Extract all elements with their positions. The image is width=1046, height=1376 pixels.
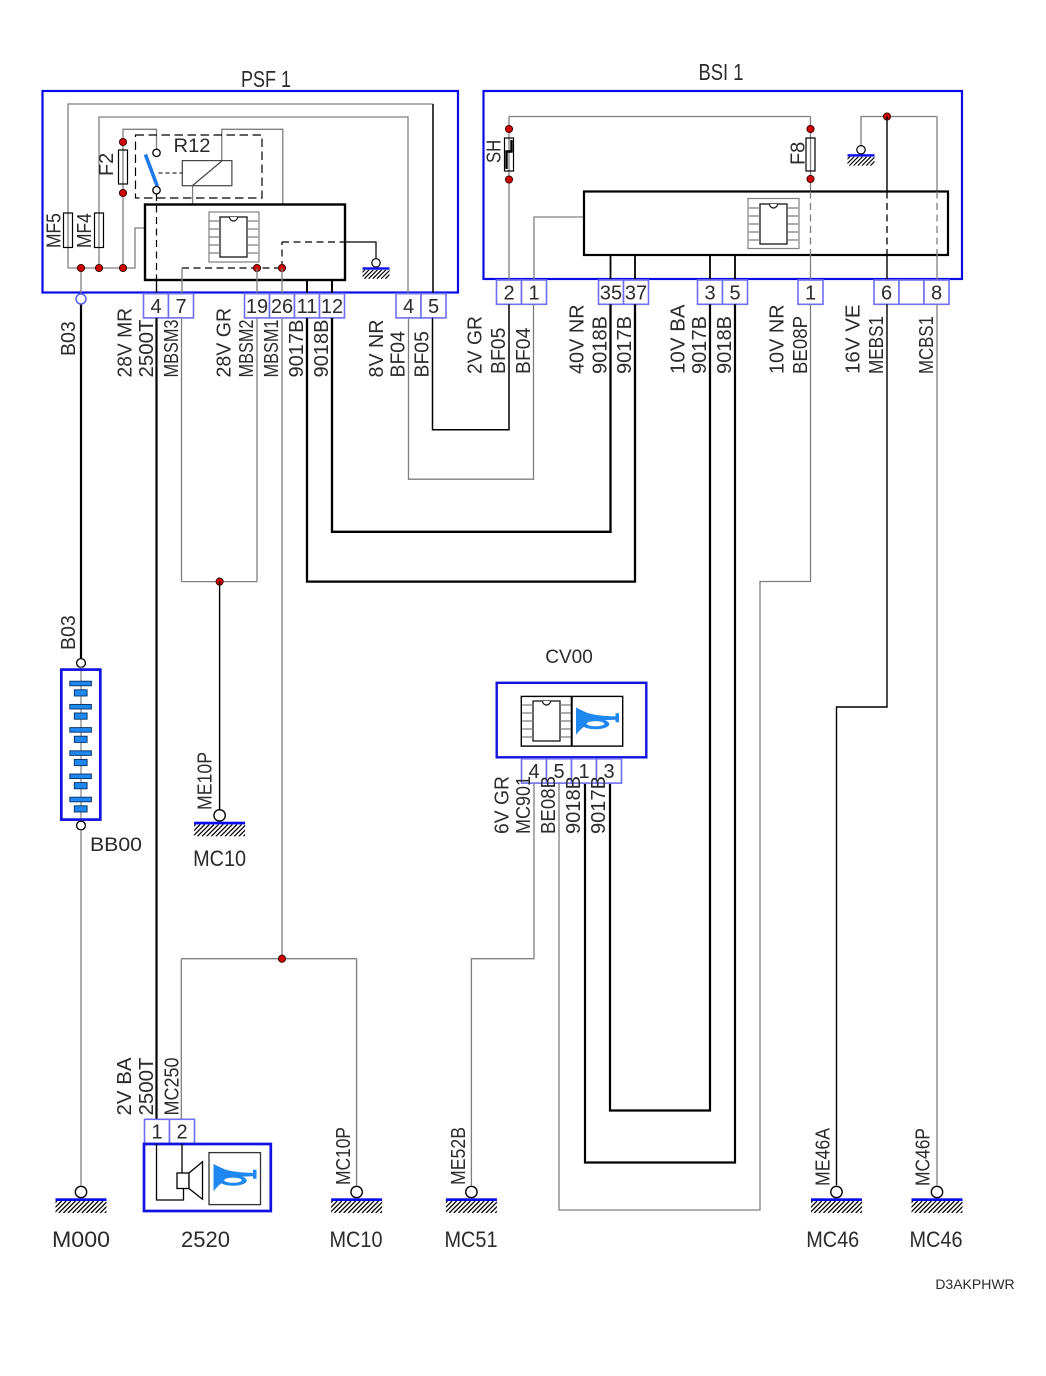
svg-text:PSF 1: PSF 1 — [241, 66, 291, 92]
svg-text:10V NR: 10V NR — [766, 304, 788, 374]
svg-text:MC10P: MC10P — [333, 1127, 355, 1185]
svg-text:2V BA: 2V BA — [114, 1057, 136, 1116]
svg-text:40V NR: 40V NR — [566, 304, 588, 374]
svg-text:2500T: 2500T — [136, 1058, 158, 1116]
svg-text:R12: R12 — [174, 136, 211, 157]
svg-text:7: 7 — [175, 296, 186, 318]
svg-text:BE08P: BE08P — [790, 316, 812, 374]
svg-text:1: 1 — [151, 1122, 162, 1144]
svg-text:BF04: BF04 — [513, 328, 535, 374]
svg-text:F2: F2 — [96, 153, 118, 176]
svg-text:12: 12 — [321, 296, 343, 318]
svg-text:MEBS1: MEBS1 — [866, 316, 888, 374]
svg-text:MC10: MC10 — [193, 846, 246, 871]
svg-text:B03: B03 — [58, 321, 80, 356]
svg-text:4: 4 — [150, 296, 161, 318]
svg-text:MCBS1: MCBS1 — [916, 316, 938, 374]
svg-text:ME46A: ME46A — [812, 1127, 834, 1186]
svg-text:8V NR: 8V NR — [366, 320, 388, 378]
svg-text:MC10: MC10 — [330, 1227, 383, 1252]
svg-text:1: 1 — [528, 282, 539, 304]
svg-text:28V GR: 28V GR — [213, 308, 235, 378]
svg-text:9017B: 9017B — [614, 316, 636, 374]
svg-text:19: 19 — [246, 296, 268, 318]
svg-text:MBSM2: MBSM2 — [236, 320, 258, 378]
svg-text:MF5: MF5 — [43, 213, 65, 248]
svg-text:11: 11 — [297, 296, 318, 318]
svg-text:2V GR: 2V GR — [464, 316, 486, 374]
svg-text:F8: F8 — [787, 142, 809, 165]
svg-text:9017B: 9017B — [588, 776, 610, 834]
svg-text:ME10P: ME10P — [194, 752, 216, 810]
svg-text:ME52B: ME52B — [448, 1127, 470, 1185]
svg-text:26: 26 — [271, 296, 293, 318]
svg-text:2500T: 2500T — [136, 320, 158, 378]
svg-text:MC901: MC901 — [513, 776, 535, 834]
svg-text:MC46: MC46 — [806, 1227, 859, 1252]
svg-text:10V BA: 10V BA — [667, 304, 689, 374]
svg-text:MC51: MC51 — [445, 1227, 498, 1252]
svg-text:MBSM1: MBSM1 — [261, 320, 283, 378]
svg-text:2: 2 — [176, 1122, 187, 1144]
svg-text:D3AKPHWR: D3AKPHWR — [935, 1276, 1014, 1292]
svg-text:2520: 2520 — [181, 1227, 230, 1252]
svg-text:BB00: BB00 — [90, 835, 142, 856]
svg-text:35: 35 — [600, 282, 622, 304]
svg-text:9017B: 9017B — [689, 316, 711, 374]
svg-text:6: 6 — [881, 282, 892, 304]
svg-text:16V VE: 16V VE — [843, 304, 865, 374]
svg-text:BF04: BF04 — [387, 331, 409, 377]
svg-text:8: 8 — [931, 282, 942, 304]
svg-text:6V GR: 6V GR — [491, 776, 513, 834]
svg-text:MC250: MC250 — [161, 1058, 183, 1116]
svg-text:BE08B: BE08B — [538, 776, 560, 834]
svg-text:BSI 1: BSI 1 — [699, 59, 744, 85]
svg-text:9017B: 9017B — [286, 320, 308, 378]
svg-text:MC46: MC46 — [910, 1227, 963, 1252]
svg-text:MBSM3: MBSM3 — [161, 320, 183, 378]
svg-text:28V MR: 28V MR — [114, 308, 136, 378]
svg-text:5: 5 — [428, 296, 439, 318]
svg-text:3: 3 — [704, 282, 715, 304]
svg-text:9018B: 9018B — [714, 316, 736, 374]
svg-text:B03: B03 — [58, 615, 80, 650]
svg-text:2: 2 — [503, 282, 514, 304]
svg-text:37: 37 — [625, 282, 647, 304]
svg-text:MC46P: MC46P — [912, 1128, 934, 1186]
svg-text:BF05: BF05 — [488, 328, 510, 374]
svg-text:MF4: MF4 — [74, 213, 96, 248]
svg-text:CV00: CV00 — [545, 647, 593, 668]
svg-text:SH: SH — [483, 140, 505, 163]
svg-text:M000: M000 — [52, 1227, 110, 1252]
svg-text:5: 5 — [729, 282, 740, 304]
svg-text:9018B: 9018B — [311, 320, 333, 378]
svg-text:9018B: 9018B — [589, 316, 611, 374]
svg-text:BF05: BF05 — [411, 331, 433, 377]
svg-text:9018B: 9018B — [563, 776, 585, 834]
svg-text:1: 1 — [805, 282, 816, 304]
svg-text:4: 4 — [403, 296, 414, 318]
